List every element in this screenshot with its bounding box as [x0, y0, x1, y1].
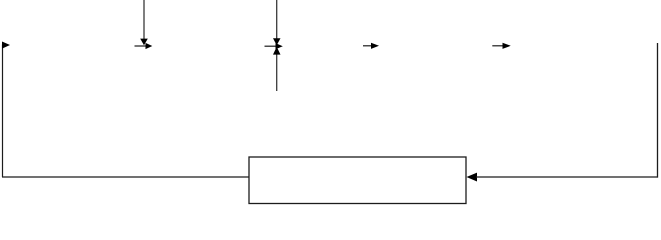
arrow: horizontal flow arrow 2 (points right, into junction) [265, 43, 283, 49]
wire: right feedback vertical riser [657, 43, 659, 178]
arrow: vertical feed line 2 coming down at x=277 [273, 0, 281, 45]
arrowhead: feedback output pointing right at top-left [2, 42, 10, 49]
arrow: horizontal flow arrow 1 (points right) [135, 43, 153, 49]
arrow: horizontal flow arrow 3 (points right) [363, 43, 379, 49]
arrow: vertical feed line 1 coming down at x=144 [140, 0, 148, 45]
wire: bottom-left feedback horizontal run to box [2, 176, 249, 178]
arrow: horizontal flow arrow 4 (points right) [492, 43, 510, 49]
arrow: feedback input into right side of rectangle (points left) [467, 173, 658, 182]
wire: left feedback vertical riser [2, 45, 4, 178]
arrow: vertical return line pointing up at x=277 [273, 47, 281, 91]
block: feedback process rectangle [249, 157, 466, 204]
